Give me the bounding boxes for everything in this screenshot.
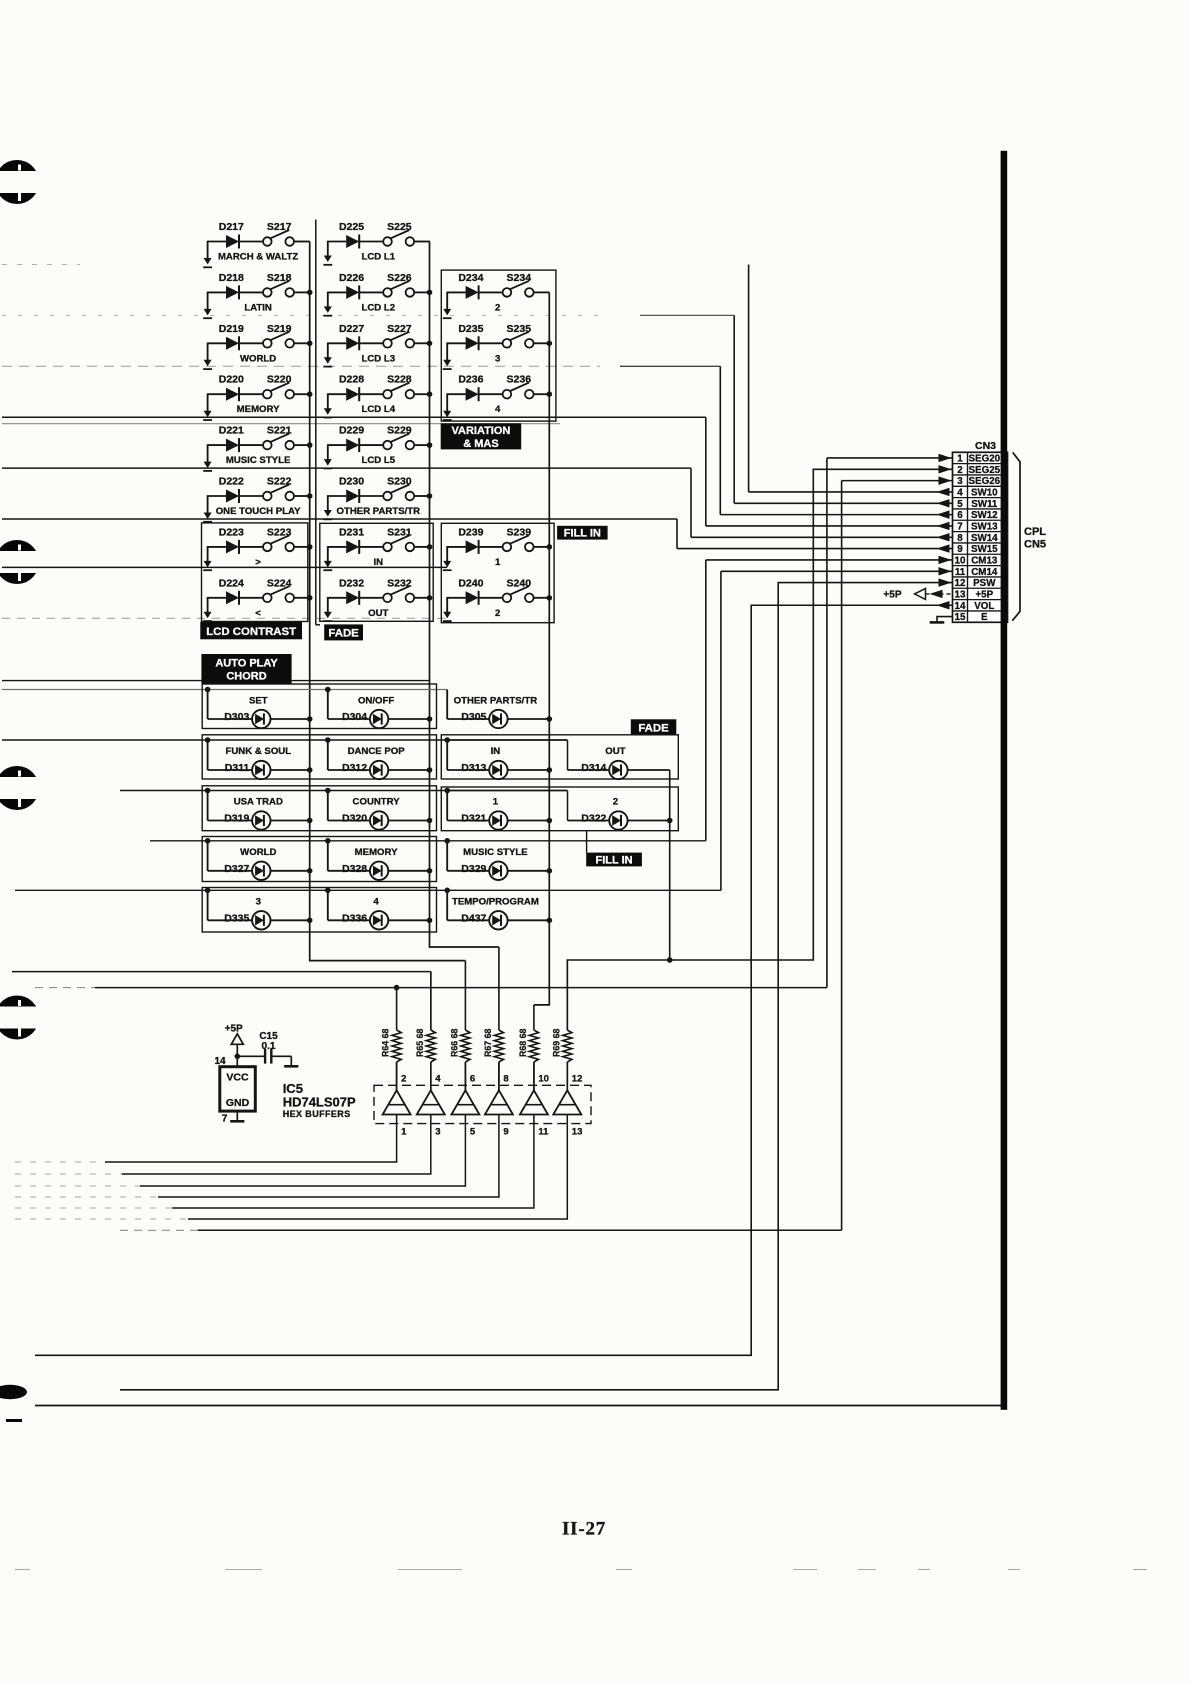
wire SEG20 net left dashes [35, 987, 95, 989]
wire rail drop [446, 890, 448, 920]
wire anode D223 [208, 546, 226, 548]
svg-text:VOL: VOL [974, 601, 994, 612]
wire LED rail row B [2, 739, 568, 741]
wire cathode D321 [508, 820, 550, 822]
svg-text:<: < [255, 608, 261, 619]
wire SW12 net row3 (faded) [2, 365, 600, 367]
svg-text:D312: D312 [342, 762, 367, 774]
wire D227-S227 [359, 342, 383, 344]
junction column bus 1 LED row [307, 918, 313, 924]
LED diode D336 [370, 911, 388, 929]
svg-text:D327: D327 [224, 863, 249, 875]
switch S218 [263, 288, 272, 297]
junction column bus 1 [307, 290, 313, 296]
svg-text:MARCH & WALTZ: MARCH & WALTZ [218, 252, 298, 263]
svg-text:4: 4 [373, 896, 379, 907]
wire cathode D312 [388, 769, 429, 771]
junction column bus 3 [547, 595, 553, 601]
box LED row B col1-2 [202, 735, 436, 779]
svg-text:D336: D336 [342, 912, 367, 924]
wire anode D311 [208, 769, 253, 771]
svg-text:3: 3 [495, 353, 500, 364]
wire row select stub [446, 292, 448, 311]
svg-text:MEMORY: MEMORY [355, 847, 398, 858]
svg-text:R68 68: R68 68 [518, 1029, 528, 1057]
junction on rail [325, 687, 331, 693]
svg-text:R67 68: R67 68 [483, 1029, 493, 1057]
svg-text:D219: D219 [219, 323, 244, 335]
svg-text:SET: SET [249, 696, 268, 707]
junction on rail [444, 737, 450, 743]
LED diode D311 [252, 761, 270, 779]
svg-text:12: 12 [955, 578, 966, 589]
diode D226 [346, 286, 359, 299]
wire rail drop [207, 690, 209, 720]
junction column bus 3 LED row [547, 868, 553, 874]
junction column bus 1 [307, 544, 313, 550]
D221 S221 MUSIC STYLE switch row [203, 425, 310, 471]
svg-text:3: 3 [256, 896, 261, 907]
resistor R64 68 [381, 988, 402, 1091]
svg-text:D314: D314 [581, 762, 606, 774]
svg-text:D229: D229 [339, 425, 364, 437]
wire S229 to column bus [414, 444, 430, 446]
diode D228 [346, 388, 359, 401]
svg-text:R65 68: R65 68 [415, 1029, 425, 1057]
svg-text:FADE: FADE [638, 722, 669, 734]
switch S228 [383, 390, 392, 399]
svg-text:D235: D235 [458, 323, 483, 335]
svg-text:CHORD: CHORD [226, 670, 266, 682]
D220 S220 MEMORY switch row [203, 374, 310, 420]
box LCD CONTRAST group [202, 523, 308, 622]
wire into pin 6 [720, 514, 952, 516]
wire row select stub [207, 393, 209, 412]
scan artifact line under row4 bus [2, 423, 560, 425]
junction column bus 3 LED row [547, 716, 553, 722]
resistor R65 68 [415, 972, 436, 1091]
box LED row D col1-2 [202, 837, 436, 882]
wire anode D303 [208, 718, 253, 720]
wire S236 to column bus [534, 393, 550, 395]
wire D314/D322 cathode column [669, 770, 671, 960]
svg-text:1: 1 [401, 1127, 407, 1138]
svg-text:VCC: VCC [226, 1072, 249, 1084]
LED D329 MUSIC STYLE [444, 838, 549, 880]
svg-text:D329: D329 [461, 863, 486, 875]
LED diode D314 [609, 761, 627, 779]
svg-text:4: 4 [495, 404, 501, 415]
svg-text:S235: S235 [507, 323, 532, 335]
svg-text:S229: S229 [387, 425, 412, 437]
svg-text:8: 8 [503, 1074, 508, 1085]
svg-text:GND: GND [226, 1097, 250, 1109]
wire column bus 3 (col3 switches+LEDs to R68) [534, 292, 549, 1005]
diode D223 [226, 540, 239, 553]
svg-text:2: 2 [957, 465, 963, 476]
wire D240-S240 [479, 597, 503, 599]
svg-text:FUNK & SOUL: FUNK & SOUL [226, 746, 292, 757]
junction on rail [325, 838, 331, 844]
label FADE (LED group) [631, 719, 677, 735]
wire SW14 vertical to CN3 pin 8 [690, 468, 692, 537]
arrowhead into pin 1 [939, 454, 952, 462]
row-select down arrow [443, 612, 451, 619]
junction column bus 1 [307, 341, 313, 347]
wire anode D312 [328, 769, 370, 771]
svg-text:SEG20: SEG20 [969, 454, 1001, 465]
switch S227 [383, 339, 392, 348]
switch S236 [503, 390, 512, 399]
D222 S222 ONE TOUCH PLAY switch row [203, 476, 310, 522]
wire cathode D336 [388, 919, 429, 921]
row-select down arrow [204, 513, 212, 520]
svg-text:S221: S221 [267, 425, 292, 437]
svg-text:S240: S240 [507, 577, 532, 589]
arrowhead out of pin 5 [937, 499, 950, 507]
wire D231-S231 [359, 546, 383, 548]
svg-text:D226: D226 [339, 272, 364, 284]
wire anode D231 [328, 546, 346, 548]
wire PSW net: CN3 pin12 to left edge [120, 583, 953, 1390]
wire anode D437 [447, 919, 489, 921]
wire R65 net from left edge [12, 971, 431, 973]
svg-text:4: 4 [435, 1074, 441, 1085]
wire D223-S223 [239, 546, 263, 548]
wire rail drop [446, 690, 448, 720]
svg-text:COUNTRY: COUNTRY [353, 797, 401, 808]
wire rail drop [207, 791, 209, 821]
switch S219 [263, 339, 272, 348]
wire rail drop [207, 841, 209, 871]
wire buffer input down + stair to left edge [122, 1115, 431, 1175]
svg-text:0.1: 0.1 [262, 1041, 276, 1052]
switch S226 [383, 288, 392, 297]
diode D221 [226, 439, 239, 452]
row-select down arrow [443, 411, 451, 418]
wire anode D240 [447, 597, 465, 599]
LED diode D305 [489, 710, 507, 728]
svg-text:3: 3 [957, 476, 963, 487]
LED D437 TEMPO/PROGRAM [444, 888, 550, 930]
D232 S232 OUT switch row [323, 577, 430, 621]
arrowhead out of pin 7 [937, 522, 950, 530]
wire anode D220 [208, 393, 226, 395]
svg-text:OUT: OUT [368, 608, 388, 619]
diode D234 [466, 286, 479, 299]
row-select down arrow [204, 462, 212, 469]
wire SW15 net row6 [2, 518, 677, 520]
wire cathode D304 [388, 718, 429, 720]
wire spare vertical left of col2 [315, 220, 317, 625]
wire row8 net (faded) [2, 617, 447, 619]
LED diode D322 [609, 811, 627, 829]
ground (IC5 GND pin 7) [230, 1120, 244, 1123]
wire anode D328 [328, 870, 370, 872]
wire rail drop [327, 841, 329, 871]
wire anode D320 [328, 820, 370, 822]
svg-text:9: 9 [503, 1127, 508, 1138]
wire S222 to column bus [294, 495, 310, 497]
LED D336 4 [325, 888, 430, 930]
svg-text:SW10: SW10 [971, 488, 998, 499]
arrowhead out of pin 14 [937, 601, 950, 609]
svg-text:DANCE POP: DANCE POP [348, 746, 406, 757]
junction column bus 3 [547, 391, 553, 397]
wire CM14 net: CN3 pin11 to LED rail E [720, 571, 722, 890]
svg-text:USA TRAD: USA TRAD [234, 797, 283, 808]
wire S232 to column bus [414, 597, 430, 599]
wire cathode D437 [508, 919, 551, 921]
wire D232-S232 [359, 597, 383, 599]
wire VOL net: CN3 pin14 to left edge [35, 605, 953, 1355]
wire SEG20 net: from left edge via R64 to CN3 pin1 [95, 987, 827, 989]
wire S239 to column bus [534, 546, 550, 548]
wire row select stub [327, 495, 329, 511]
wire SW15 vertical to CN3 pin 9 [676, 519, 678, 549]
wire row select stub [327, 393, 329, 409]
wire D219-S219 [239, 342, 263, 344]
svg-text:D437: D437 [461, 912, 486, 924]
switch S234 [503, 288, 512, 297]
label VARIATION & MAS [441, 423, 522, 449]
LED D314 OUT [447, 740, 670, 779]
wire anode D221 [208, 444, 226, 446]
wire buffer output up [566, 1062, 568, 1090]
diode D230 [346, 490, 359, 503]
svg-text:ONE TOUCH PLAY: ONE TOUCH PLAY [216, 506, 301, 517]
wire rail drop [327, 690, 329, 720]
power +5P feed at pin 13 [883, 588, 952, 600]
LED diode D437 [489, 911, 507, 929]
svg-text:R69 68: R69 68 [551, 1029, 561, 1057]
svg-text:10: 10 [538, 1074, 549, 1085]
svg-text:IN: IN [491, 746, 501, 757]
svg-text:7: 7 [957, 522, 963, 533]
svg-text:>: > [255, 557, 261, 568]
power +5P symbol [225, 1024, 244, 1067]
wire anode D336 [328, 919, 370, 921]
svg-text:WORLD: WORLD [240, 847, 276, 858]
diode D231 [346, 540, 359, 553]
svg-text:D230: D230 [339, 476, 364, 488]
wire LED rail row A [2, 689, 447, 691]
junction column bus 2 [427, 341, 433, 347]
svg-text:II-27: II-27 [562, 1519, 606, 1540]
svg-text:S239: S239 [507, 526, 532, 538]
junction column bus 2 LED row [427, 818, 433, 824]
wire D236-S236 [479, 393, 503, 395]
wire D220-S220 [239, 393, 263, 395]
buffer IC5 element 4 (pins 9->8) [15, 1062, 513, 1197]
buffer IC5 element 3 (pins 5->6) [15, 1062, 479, 1186]
wire D225-S225 [359, 241, 383, 243]
svg-text:S224: S224 [267, 577, 292, 589]
wire SEG26 net: stair line to CN3 pin3 [198, 1229, 842, 1231]
svg-text:S222: S222 [267, 476, 292, 488]
wire cathode D329 [508, 870, 550, 872]
junction column bus 2 [427, 290, 433, 296]
svg-text:CM14: CM14 [971, 567, 998, 578]
svg-text:2: 2 [613, 797, 618, 808]
svg-text:S234: S234 [507, 272, 532, 284]
svg-text:S231: S231 [387, 526, 412, 538]
resistor R68 68 [518, 1005, 539, 1090]
wire S226 to column bus [414, 291, 430, 293]
buffer IC5 element 5 (pins 11->10) [15, 1062, 549, 1208]
wire S234 to column bus [534, 291, 550, 293]
junction column bus 3 LED row [547, 818, 553, 824]
wire anode D222 [208, 495, 226, 497]
row-select down arrow [443, 309, 451, 316]
wire D235-S235 [479, 342, 503, 344]
row-select down arrow [204, 561, 212, 568]
box LED row B col3-4 [441, 735, 678, 779]
wire rail drop [327, 791, 329, 821]
wire S217 to column bus [294, 241, 310, 243]
wire D224-S224 [239, 597, 263, 599]
svg-text:MUSIC STYLE: MUSIC STYLE [226, 455, 291, 466]
resistor R66 68 [449, 961, 470, 1091]
wire D226-S226 [359, 291, 383, 293]
svg-text:+5P: +5P [883, 589, 901, 600]
wire row select stub [207, 546, 209, 562]
diode D227 [346, 337, 359, 350]
diode D229 [346, 439, 359, 452]
svg-text:IN: IN [374, 557, 384, 568]
wire anode D313 [447, 769, 489, 771]
wire row select stub [207, 292, 209, 311]
svg-text:D228: D228 [339, 374, 364, 386]
LED D319 USA TRAD [205, 788, 310, 830]
wire row select stub [327, 546, 329, 562]
connector CN3 [953, 440, 1008, 623]
junction column bus 2 [427, 442, 433, 448]
row-select down arrow [204, 258, 212, 265]
svg-text:D236: D236 [458, 374, 483, 386]
svg-text:S227: S227 [387, 323, 412, 335]
svg-text:S232: S232 [387, 577, 412, 589]
svg-text:SW11: SW11 [971, 499, 998, 510]
svg-text:SEG26: SEG26 [969, 476, 1001, 487]
wire anode D335 [208, 919, 253, 921]
wire cathode D303 [271, 718, 310, 720]
row-select down arrow [204, 411, 212, 418]
wire cathode D320 [388, 820, 429, 822]
switch S217 [263, 237, 272, 246]
wire anode D225 [328, 241, 346, 243]
LED diode D319 [252, 811, 270, 829]
wire anode D305 [447, 718, 489, 720]
wire D230-S230 [359, 495, 383, 497]
arrowhead out of pin 4 [937, 488, 950, 496]
svg-text:5: 5 [470, 1127, 476, 1138]
D217 S217 MARCH & WALTZ switch row [203, 221, 310, 267]
wire cathode D328 [388, 870, 429, 872]
ground at pin 15 (E) [930, 617, 953, 623]
row-select down arrow [443, 561, 451, 568]
wire anode D224 [208, 597, 226, 599]
wire anode D236 [447, 393, 465, 395]
wire cathode D327 [271, 870, 310, 872]
LED diode D327 [252, 862, 270, 880]
svg-text:CPL: CPL [1024, 526, 1046, 538]
junction column bus 1 [307, 391, 313, 397]
wire into pin 8 [691, 536, 953, 538]
svg-text:D232: D232 [339, 577, 364, 589]
wire LED rail row E [15, 889, 721, 891]
wire buffer input down + stair to left edge [158, 1115, 499, 1198]
wire row select stub [327, 444, 329, 460]
junction column bus 1 LED row [307, 868, 313, 874]
wire row7 net LCD-contrast/fade [2, 566, 447, 568]
D236 S236 4 switch row [443, 374, 550, 420]
LED D311 FUNK & SOUL [205, 737, 310, 779]
wire anode D232 [328, 597, 346, 599]
svg-text:D227: D227 [339, 323, 364, 335]
LED D320 COUNTRY [325, 788, 430, 830]
D226 S226 LCD L2 switch row [323, 272, 430, 316]
capacitor C15 0.1 [237, 1031, 298, 1066]
wire D217-S217 [239, 241, 263, 243]
svg-text:S217: S217 [267, 221, 292, 233]
wire rail drop [446, 841, 448, 871]
row-select down arrow [443, 360, 451, 367]
svg-text:LCD L4: LCD L4 [362, 404, 396, 415]
wire anode D327 [208, 870, 253, 872]
junction column bus 3 LED row [547, 767, 553, 773]
svg-text:OUT: OUT [605, 746, 625, 757]
svg-text:D304: D304 [342, 711, 367, 723]
switch S220 [263, 390, 272, 399]
wire frame/shield line bottom [35, 1405, 1006, 1407]
svg-text:+5P: +5P [225, 1024, 243, 1035]
junction column bus 2 [427, 493, 433, 499]
svg-text:OTHER PARTS/TR: OTHER PARTS/TR [337, 506, 421, 517]
wire rail drop [446, 791, 448, 821]
diode D240 [466, 591, 479, 604]
svg-text:OTHER PARTS/TR: OTHER PARTS/TR [454, 696, 538, 707]
svg-text:LCD L2: LCD L2 [362, 302, 396, 313]
svg-text:FILL IN: FILL IN [596, 854, 633, 866]
diode D220 [226, 388, 239, 401]
D223 S223 > switch row [203, 526, 310, 570]
junction column bus 2 LED row [427, 868, 433, 874]
wire row select stub [327, 241, 329, 257]
svg-text:TEMPO/PROGRAM: TEMPO/PROGRAM [452, 896, 539, 907]
svg-text:R64 68: R64 68 [381, 1029, 391, 1057]
wire rail drop [207, 890, 209, 920]
wire into pin 7 [706, 525, 953, 527]
junction on rail [325, 737, 331, 743]
wire rail drop [446, 740, 448, 770]
arrowhead out of pin 8 [937, 533, 950, 541]
wire SW12 vertical to CN3 pin 6 [719, 366, 721, 514]
junction column bus 3 LED row [547, 918, 553, 924]
svg-text:ON/OFF: ON/OFF [358, 696, 394, 707]
resistor R69 68 [551, 960, 572, 1090]
wire row select stub [327, 597, 329, 613]
junction column bus 1 LED row [307, 818, 313, 824]
wire anode D234 [447, 291, 465, 293]
switch S225 [383, 237, 392, 246]
switch S235 [503, 339, 512, 348]
wire leader to FILL IN label [586, 831, 588, 853]
wire S219 to column bus [294, 342, 310, 344]
row-select down arrow [324, 561, 332, 568]
box LED row C col1-2 [202, 786, 436, 831]
label FILL IN (switch group) [557, 526, 608, 540]
